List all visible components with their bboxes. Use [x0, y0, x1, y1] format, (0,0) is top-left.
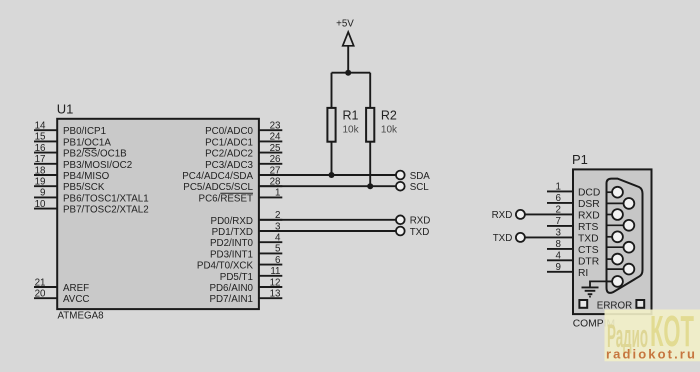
svg-text:12: 12 [270, 277, 281, 288]
P1 pin 1 DCD [547, 182, 600, 199]
svg-text:PD2/INT0: PD2/INT0 [210, 238, 254, 249]
node RXD terminal (MCU side) [396, 215, 430, 226]
svg-text:PB1/OC1A: PB1/OC1A [63, 137, 111, 148]
svg-text:4: 4 [275, 233, 281, 244]
ERROR indicator right square [636, 300, 644, 308]
DB9 hole pin 8 [624, 242, 635, 253]
node TXD terminal (P1 side) [493, 233, 525, 244]
IC U1 (ATMEGA8) body [57, 119, 259, 309]
svg-text:CTS: CTS [578, 245, 599, 256]
ground symbol [582, 287, 599, 296]
node SCL terminal [396, 182, 429, 193]
pin 23 PC0/ADC0 [205, 121, 282, 138]
pin 17 PB3/MOSI/OC2 [34, 154, 132, 171]
P1 pin 7 RTS [547, 216, 599, 233]
svg-text:DCD: DCD [578, 188, 600, 199]
svg-text:PB4/MISO: PB4/MISO [63, 171, 110, 182]
svg-text:PC4/ADC4/SDA: PC4/ADC4/SDA [182, 171, 253, 182]
svg-text:+5V: +5V [336, 19, 354, 30]
svg-text:R1: R1 [343, 108, 359, 122]
svg-text:7: 7 [556, 216, 561, 227]
svg-text:20: 20 [35, 289, 46, 300]
pin 5 PD3/INT1 [210, 244, 282, 261]
svg-text:14: 14 [35, 121, 46, 132]
svg-text:10k: 10k [381, 125, 398, 136]
svg-text:2: 2 [556, 205, 561, 216]
svg-text:radiokot.ru: radiokot.ru [606, 347, 697, 362]
svg-text:ATMEGA8: ATMEGA8 [58, 311, 105, 322]
svg-text:PD0/RXD: PD0/RXD [211, 216, 253, 227]
DB9 hole pin 7 [624, 220, 635, 231]
P1 pin 8 CTS [547, 239, 599, 256]
connector P1 (COMPIM) body [573, 169, 652, 314]
svg-text:DSR: DSR [578, 199, 600, 210]
resistor R2 [366, 108, 398, 142]
svg-text:U1: U1 [57, 102, 74, 117]
svg-text:PC1/ADC1: PC1/ADC1 [205, 137, 253, 148]
svg-text:1: 1 [275, 188, 280, 199]
svg-text:19: 19 [35, 177, 46, 188]
power +5V symbol [336, 19, 354, 46]
svg-text:23: 23 [270, 121, 281, 132]
svg-text:9: 9 [40, 188, 45, 199]
DB9 hole pin 3 [612, 231, 623, 242]
svg-text:PB6/TOSC1/XTAL1: PB6/TOSC1/XTAL1 [63, 193, 149, 204]
node SDA terminal [396, 171, 430, 182]
svg-text:PD3/INT1: PD3/INT1 [210, 249, 253, 260]
svg-text:5: 5 [275, 244, 281, 255]
DB9 leader line pin 8 [607, 246, 629, 248]
pin 28 PC5/ADC5/SCL [183, 177, 282, 194]
pin 13 PD7/AIN1 [209, 289, 282, 306]
pin 15 PB1/OC1A [34, 132, 111, 149]
svg-text:PD5/T1: PD5/T1 [220, 272, 253, 283]
wire R2 to SCL net [369, 142, 371, 187]
pin 9 PB6/TOSC1/XTAL1 [34, 188, 149, 205]
P1 pin 6 DSR [547, 193, 600, 210]
pin 19 PB5/SCK [34, 177, 105, 194]
svg-text:26: 26 [270, 154, 281, 165]
svg-text:SCL: SCL [410, 182, 430, 193]
P1 pin 9 RI [547, 262, 588, 279]
DB9 leader line pin 4 [607, 258, 618, 260]
svg-text:PB0/ICP1: PB0/ICP1 [63, 126, 106, 137]
svg-text:RXD: RXD [492, 210, 513, 221]
svg-text:18: 18 [35, 165, 46, 176]
svg-text:10: 10 [35, 199, 46, 210]
pin 16 PB2/SS/OC1B [34, 143, 127, 160]
svg-text:P1: P1 [572, 152, 588, 167]
P1 pin 3 TXD [525, 228, 599, 245]
node TXD terminal (MCU side) [396, 227, 429, 238]
svg-text:10k: 10k [343, 125, 360, 136]
P1 pin 2 RXD [525, 205, 600, 222]
pin 27 PC4/ADC4/SDA [182, 165, 282, 182]
DB9 leader line pin 6 [607, 202, 629, 204]
wire SCL net (pin 28 to terminal) [259, 185, 396, 187]
wire +5V arrow down to rail [347, 46, 349, 73]
svg-text:SDA: SDA [410, 171, 431, 182]
svg-text:RTS: RTS [578, 222, 599, 233]
svg-text:13: 13 [270, 289, 281, 300]
svg-text:RI: RI [578, 268, 588, 279]
svg-text:21: 21 [35, 277, 46, 288]
svg-text:1: 1 [556, 182, 561, 193]
svg-text:AREF: AREF [63, 283, 89, 294]
DB9 hole pin 9 [624, 264, 635, 275]
pin 11 PD5/T1 [220, 266, 283, 283]
DB9 hole pin 2 [612, 209, 623, 220]
svg-text:4: 4 [556, 251, 562, 262]
svg-text:PC3/ADC3: PC3/ADC3 [205, 160, 253, 171]
svg-text:PD1/TXD: PD1/TXD [212, 227, 253, 238]
svg-text:TXD: TXD [493, 233, 513, 244]
pin 2 PD0/RXD [211, 210, 283, 227]
svg-text:PB5/SCK: PB5/SCK [63, 182, 105, 193]
svg-text:PC2/ADC2: PC2/ADC2 [205, 149, 253, 160]
junction SDA/R1 [329, 172, 335, 178]
DB9 hole pin 5 [612, 276, 623, 287]
wire RXD net (pin 2 to terminal) [259, 219, 396, 221]
svg-text:RXD: RXD [578, 211, 600, 222]
svg-text:PC0/ADC0: PC0/ADC0 [205, 126, 253, 137]
ERROR indicator left square [579, 300, 587, 308]
junction +5V rail [345, 70, 351, 76]
svg-text:RXD: RXD [410, 216, 431, 227]
svg-text:PB3/MOSI/OC2: PB3/MOSI/OC2 [63, 160, 132, 171]
pin 4 PD2/INT0 [210, 233, 282, 250]
DB9 leader line pin 1 [607, 191, 618, 193]
wire rail to R1 [331, 73, 333, 109]
DB9 hole pin 1 [612, 187, 623, 198]
pin 10 PB7/TOSC2/XTAL2 [34, 199, 149, 216]
svg-text:8: 8 [556, 239, 562, 250]
svg-text:R2: R2 [381, 108, 397, 122]
DB9 leader line pin 9 [607, 268, 629, 270]
svg-text:PC5/ADC5/SCL: PC5/ADC5/SCL [183, 182, 253, 193]
svg-text:AVCC: AVCC [63, 294, 90, 305]
pin 14 PB0/ICP1 [34, 121, 106, 138]
pin 6 PD4/T0/XCK [197, 255, 282, 272]
DB9 face outline [607, 179, 643, 293]
pin 25 PC2/ADC2 [205, 143, 282, 160]
pin 18 PB4/MISO [34, 165, 110, 182]
svg-text:6: 6 [556, 193, 562, 204]
resistor R1 [327, 108, 359, 142]
svg-text:11: 11 [270, 266, 280, 277]
svg-text:16: 16 [35, 143, 46, 154]
DB9 hole pin 6 [624, 198, 635, 209]
DB9 leader line pin 5 [607, 280, 618, 282]
pin 26 PC3/ADC3 [205, 154, 282, 171]
P1 pin 4 DTR [547, 251, 599, 268]
svg-text:25: 25 [270, 143, 281, 154]
DB9 leader line pin 3 [607, 236, 618, 238]
watermark radiokot.ru [605, 307, 700, 362]
svg-text:3: 3 [556, 228, 562, 239]
wire DB9 pin 5 to ground [590, 281, 612, 286]
wire R1 to SDA net [331, 142, 333, 175]
DB9 leader line pin 2 [607, 214, 618, 216]
pin 1 PC6/RESET [199, 188, 283, 205]
junction SCL/R2 [367, 183, 373, 189]
pin 3 PD1/TXD [212, 221, 283, 238]
svg-text:PB7/TOSC2/XTAL2: PB7/TOSC2/XTAL2 [63, 205, 149, 216]
wire rail to R2 [369, 73, 371, 109]
pin 12 PD6/AIN0 [209, 277, 282, 294]
svg-text:24: 24 [270, 132, 281, 143]
pin 20 AVCC [34, 289, 90, 306]
svg-text:PC6/RESET: PC6/RESET [199, 193, 253, 204]
svg-text:6: 6 [275, 255, 281, 266]
svg-text:PD7/AIN1: PD7/AIN1 [209, 294, 253, 305]
wire SDA net (pin 27 to terminal) [259, 174, 396, 176]
svg-text:PB2/SS/OC1B: PB2/SS/OC1B [63, 149, 127, 160]
svg-text:9: 9 [556, 262, 561, 273]
svg-text:DTR: DTR [578, 257, 599, 268]
DB9 hole pin 4 [612, 254, 623, 265]
svg-text:PD6/AIN0: PD6/AIN0 [209, 283, 253, 294]
DB9 leader line pin 7 [607, 224, 629, 226]
svg-text:TXD: TXD [578, 234, 599, 245]
svg-text:PD4/T0/XCK: PD4/T0/XCK [197, 261, 254, 272]
svg-text:15: 15 [35, 132, 46, 143]
pin 24 PC1/ADC1 [205, 132, 282, 149]
svg-text:17: 17 [35, 154, 46, 165]
pin 21 AREF [34, 277, 89, 294]
node RXD terminal (P1 side) [492, 210, 525, 221]
wire TXD net (pin 3 to terminal) [259, 230, 396, 232]
wire +5V rail [332, 72, 371, 74]
svg-text:TXD: TXD [410, 227, 430, 238]
